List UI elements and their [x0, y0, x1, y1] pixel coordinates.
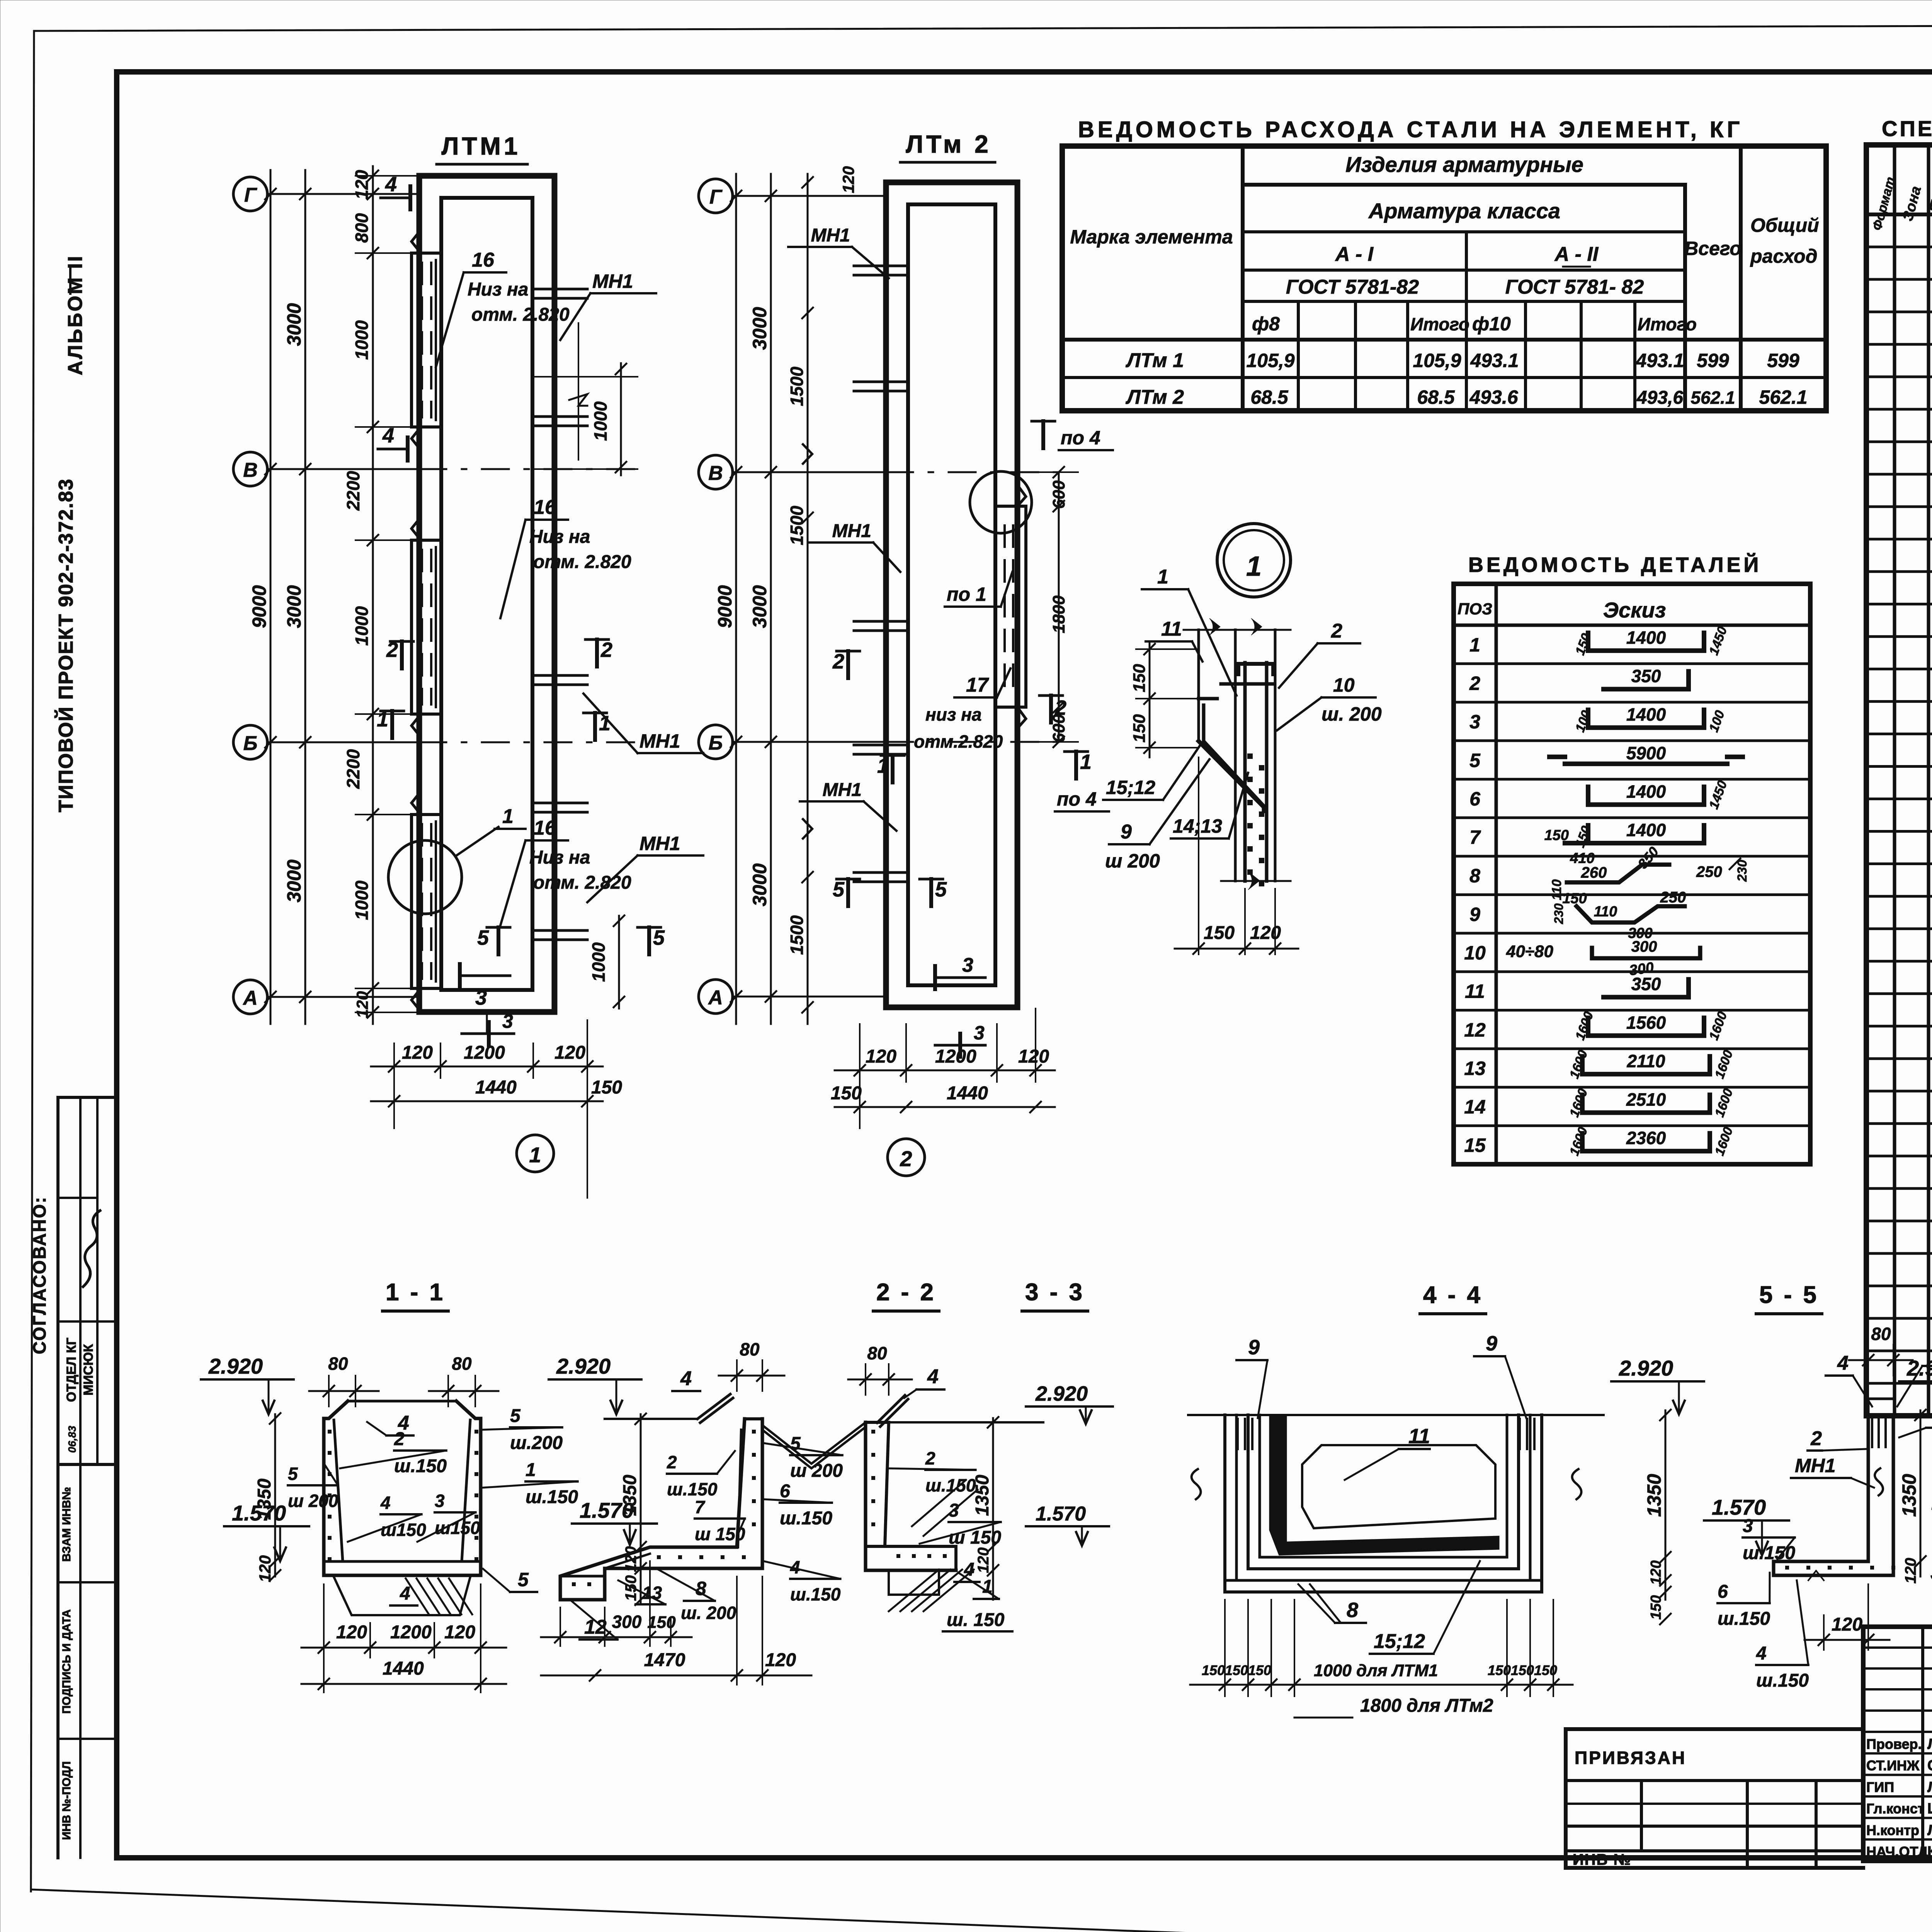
svg-text:4: 4: [382, 424, 394, 447]
svg-text:Г: Г: [709, 186, 723, 208]
svg-text:80: 80: [1871, 1324, 1891, 1344]
svg-text:1: 1: [1246, 551, 1262, 582]
svg-text:562.1: 562.1: [1690, 388, 1735, 408]
svg-text:2: 2: [832, 650, 844, 673]
svg-text:9000: 9000: [248, 585, 270, 628]
svg-text:МН1: МН1: [1795, 1455, 1836, 1476]
svg-text:2: 2: [925, 1448, 935, 1468]
svg-text:120: 120: [1832, 1614, 1862, 1635]
svg-text:отм. 2.820: отм. 2.820: [533, 552, 631, 572]
svg-text:ТИПОВОЙ ПРОЕКТ 902-2-372.83: ТИПОВОЙ ПРОЕКТ 902-2-372.83: [54, 478, 77, 813]
svg-text:Общий: Общий: [1750, 214, 1819, 236]
svg-text:6: 6: [780, 1481, 790, 1502]
svg-text:отм.2.820: отм.2.820: [914, 731, 1003, 752]
svg-text:А - II: А - II: [1554, 243, 1599, 265]
svg-text:120: 120: [402, 1043, 433, 1063]
svg-text:13: 13: [642, 1583, 662, 1603]
svg-text:1400: 1400: [1626, 704, 1666, 724]
svg-text:5: 5: [1469, 750, 1481, 771]
svg-text:600: 600: [1049, 480, 1068, 509]
svg-text:5: 5: [653, 926, 665, 949]
svg-text:493.1: 493.1: [1470, 350, 1519, 371]
svg-text:5: 5: [477, 926, 489, 949]
svg-text:Б: Б: [243, 732, 258, 755]
svg-text:15;12: 15;12: [1374, 1630, 1425, 1653]
svg-text:1: 1: [599, 712, 611, 735]
svg-text:120: 120: [1018, 1046, 1049, 1067]
svg-text:1: 1: [877, 754, 889, 777]
svg-text:493,6: 493,6: [1636, 388, 1683, 408]
svg-text:230: 230: [1552, 903, 1566, 925]
svg-text:105,9: 105,9: [1413, 350, 1461, 371]
svg-text:3000: 3000: [749, 585, 770, 628]
svg-text:1350: 1350: [1898, 1474, 1920, 1517]
svg-text:Б: Б: [709, 732, 723, 754]
svg-text:68.5: 68.5: [1417, 386, 1455, 408]
svg-text:1350: 1350: [972, 1475, 993, 1516]
svg-text:300: 300: [612, 1612, 642, 1632]
svg-text:599: 599: [1767, 350, 1799, 371]
svg-text:2 - 2: 2 - 2: [876, 1279, 936, 1306]
svg-text:ШАПИРО: ШАПИРО: [1927, 1801, 1932, 1817]
svg-text:2: 2: [667, 1452, 677, 1472]
svg-text:ш.150: ш.150: [790, 1584, 841, 1604]
svg-text:1400: 1400: [1626, 628, 1666, 648]
svg-text:5: 5: [288, 1464, 298, 1484]
svg-text:Эскиз: Эскиз: [1603, 598, 1666, 622]
svg-text:2360: 2360: [1626, 1128, 1666, 1148]
svg-text:низ на: низ на: [925, 704, 982, 724]
svg-text:1350: 1350: [620, 1475, 640, 1516]
svg-text:ИНВ №-ПОДЛ: ИНВ №-ПОДЛ: [60, 1761, 73, 1840]
svg-text:120: 120: [353, 991, 371, 1018]
svg-text:150: 150: [1534, 1662, 1557, 1678]
svg-text:Низ на: Низ на: [529, 527, 590, 547]
svg-text:ш.150: ш.150: [394, 1456, 447, 1476]
svg-text:ш 200: ш 200: [288, 1491, 338, 1511]
svg-text:16: 16: [534, 496, 556, 519]
svg-text:4 - 4: 4 - 4: [1423, 1282, 1483, 1308]
svg-text:Копировал: Коршунова: Копировал: Коршунова: [1922, 1930, 1932, 1932]
svg-text:Марка элемента: Марка элемента: [1070, 226, 1233, 248]
svg-text:68.5: 68.5: [1250, 386, 1289, 408]
svg-text:1350: 1350: [254, 1478, 275, 1520]
svg-text:ш 200: ш 200: [1105, 850, 1160, 872]
svg-text:150: 150: [1225, 1662, 1248, 1678]
svg-text:150: 150: [1488, 1662, 1511, 1678]
svg-text:11: 11: [1161, 618, 1182, 640]
svg-text:2.920: 2.920: [556, 1354, 611, 1378]
svg-text:СПЕЦИФИКАЦИЯ ЭЛЕМЕНТОВ МОНОЛИТ: СПЕЦИФИКАЦИЯ ЭЛЕМЕНТОВ МОНОЛИТНОЙ КОНСТР…: [1882, 116, 1932, 141]
svg-text:2: 2: [1810, 1427, 1822, 1450]
svg-text:ЛТм 1: ЛТм 1: [1125, 349, 1184, 372]
svg-text:ЛТм 2: ЛТм 2: [906, 130, 991, 158]
svg-text:14;13: 14;13: [1173, 815, 1222, 837]
svg-text:ГОСТ 5781-82: ГОСТ 5781-82: [1286, 276, 1419, 298]
svg-text:В: В: [243, 459, 258, 481]
svg-text:ш. 200: ш. 200: [1321, 703, 1382, 725]
svg-text:260: 260: [1581, 864, 1607, 881]
svg-text:1200: 1200: [935, 1046, 976, 1067]
svg-text:1470: 1470: [644, 1650, 685, 1670]
svg-text:250: 250: [1696, 864, 1722, 881]
svg-text:ИНВ №: ИНВ №: [1573, 1851, 1631, 1868]
svg-text:1000: 1000: [352, 320, 372, 360]
svg-text:Провер.: Провер.: [1866, 1736, 1922, 1752]
svg-text:ОТДЕЛ КГ: ОТДЕЛ КГ: [64, 1338, 79, 1402]
svg-text:80: 80: [452, 1354, 472, 1374]
svg-text:7: 7: [1469, 827, 1481, 848]
svg-text:5: 5: [833, 878, 845, 901]
svg-text:8: 8: [1347, 1599, 1358, 1622]
svg-text:150: 150: [1204, 923, 1235, 943]
svg-text:1000: 1000: [588, 942, 609, 982]
svg-text:ш.200: ш.200: [510, 1433, 563, 1453]
svg-text:150: 150: [1130, 664, 1149, 692]
svg-text:15;12: 15;12: [1106, 777, 1155, 798]
svg-text:120: 120: [1250, 923, 1281, 943]
svg-text:по 4: по 4: [1057, 788, 1097, 810]
svg-text:отм. 2.820: отм. 2.820: [471, 304, 570, 325]
svg-text:120: 120: [1902, 1558, 1919, 1584]
svg-text:9: 9: [1486, 1332, 1497, 1355]
svg-text:ЛТм 2: ЛТм 2: [1125, 386, 1184, 408]
svg-text:16: 16: [534, 817, 556, 839]
svg-text:4: 4: [400, 1583, 410, 1604]
svg-text:МН1: МН1: [823, 780, 862, 800]
svg-text:800: 800: [352, 213, 372, 243]
svg-text:9000: 9000: [714, 585, 736, 628]
svg-text:230: 230: [1735, 860, 1750, 882]
svg-text:МН1: МН1: [592, 270, 633, 292]
svg-text:1: 1: [529, 1143, 541, 1167]
svg-text:1.570: 1.570: [1712, 1495, 1766, 1519]
svg-text:1: 1: [1157, 566, 1168, 588]
svg-text:3000: 3000: [749, 307, 770, 350]
svg-text:80: 80: [740, 1339, 760, 1359]
svg-text:ш.150: ш.150: [1756, 1670, 1809, 1691]
svg-text:599: 599: [1697, 350, 1729, 371]
svg-text:5: 5: [518, 1569, 529, 1590]
svg-text:1000: 1000: [352, 880, 372, 920]
svg-text:СТ.ИНЖ: СТ.ИНЖ: [1866, 1758, 1920, 1774]
svg-text:ПОЗ: ПОЗ: [1458, 600, 1492, 618]
svg-text:АЛЬБОМ II: АЛЬБОМ II: [64, 255, 87, 376]
svg-text:9: 9: [1469, 903, 1480, 925]
svg-text:110: 110: [1549, 879, 1564, 900]
svg-text:17: 17: [966, 674, 989, 696]
svg-text:2510: 2510: [1626, 1090, 1666, 1110]
svg-text:7: 7: [695, 1497, 706, 1517]
svg-text:493.1: 493.1: [1635, 350, 1684, 371]
svg-text:11: 11: [1408, 1425, 1430, 1448]
svg-text:ПРИВЯЗАН: ПРИВЯЗАН: [1575, 1748, 1686, 1768]
svg-text:120: 120: [765, 1650, 796, 1670]
svg-text:562.1: 562.1: [1759, 386, 1807, 408]
svg-text:1400: 1400: [1626, 781, 1666, 801]
svg-text:СОГЛАСОВАНО:: СОГЛАСОВАНО:: [29, 1196, 49, 1354]
svg-text:1500: 1500: [787, 505, 807, 545]
svg-text:80: 80: [328, 1354, 348, 1374]
svg-text:МН1: МН1: [639, 833, 680, 854]
svg-text:1440: 1440: [947, 1083, 988, 1104]
svg-text:1350: 1350: [1643, 1474, 1665, 1517]
svg-text:3: 3: [974, 1022, 985, 1044]
svg-text:410: 410: [1570, 850, 1594, 867]
svg-text:СТРОНГИН: СТРОНГИН: [1927, 1758, 1932, 1774]
svg-text:120: 120: [1648, 1560, 1664, 1585]
svg-text:Гл.конст: Гл.конст: [1866, 1801, 1924, 1816]
svg-text:МН1: МН1: [811, 225, 850, 246]
svg-text:ш.150: ш.150: [1718, 1609, 1770, 1629]
svg-text:1 - 1: 1 - 1: [386, 1279, 445, 1306]
svg-text:2.920: 2.920: [1035, 1382, 1088, 1405]
svg-text:3000: 3000: [283, 859, 305, 902]
svg-text:Лоуцкер: Лоуцкер: [1927, 1822, 1932, 1838]
svg-text:МН1: МН1: [832, 521, 871, 541]
svg-text:3: 3: [1743, 1516, 1753, 1536]
svg-text:40÷80: 40÷80: [1506, 942, 1554, 961]
svg-text:150: 150: [1248, 1662, 1271, 1678]
svg-text:80: 80: [867, 1343, 887, 1363]
svg-text:1440: 1440: [475, 1077, 517, 1098]
svg-text:ВЕДОМОСТЬ РАСХОДА СТАЛИ НА ЭЛЕ: ВЕДОМОСТЬ РАСХОДА СТАЛИ НА ЭЛЕМЕНТ, КГ: [1078, 117, 1743, 142]
svg-text:2: 2: [1054, 696, 1066, 719]
svg-text:1: 1: [1469, 634, 1480, 656]
svg-text:8: 8: [1469, 865, 1480, 887]
svg-text:Г: Г: [244, 184, 257, 206]
svg-text:Низ на: Низ на: [529, 847, 590, 868]
svg-text:2200: 2200: [343, 471, 363, 511]
svg-text:2: 2: [900, 1146, 912, 1171]
svg-text:2: 2: [1469, 672, 1480, 694]
svg-text:В: В: [708, 462, 723, 485]
svg-text:120: 120: [839, 166, 857, 193]
svg-text:3: 3: [502, 1010, 513, 1032]
svg-text:ВЗАМ ИНВ№: ВЗАМ ИНВ№: [60, 1487, 73, 1561]
svg-text:1.570: 1.570: [1036, 1503, 1086, 1525]
svg-text:350: 350: [1631, 974, 1661, 994]
svg-text:ш150: ш150: [381, 1520, 426, 1540]
svg-text:Всего: Всего: [1684, 238, 1742, 259]
svg-text:120: 120: [336, 1622, 367, 1643]
svg-text:150: 150: [647, 1613, 676, 1632]
svg-text:2.920: 2.920: [1619, 1356, 1673, 1380]
svg-text:4: 4: [380, 1493, 391, 1513]
svg-text:150: 150: [591, 1077, 622, 1098]
svg-text:Лоуцкер: Лоуцкер: [1927, 1736, 1932, 1752]
svg-text:1200: 1200: [464, 1043, 505, 1063]
svg-text:ГОСТ 5781- 82: ГОСТ 5781- 82: [1505, 276, 1644, 298]
svg-text:9: 9: [1121, 821, 1132, 843]
svg-text:1500: 1500: [787, 915, 807, 955]
svg-text:5900: 5900: [1626, 743, 1666, 763]
svg-text:14: 14: [1464, 1096, 1486, 1118]
svg-text:12: 12: [1464, 1019, 1486, 1041]
svg-text:1: 1: [526, 1460, 536, 1480]
svg-text:4: 4: [385, 173, 397, 196]
svg-text:120: 120: [352, 170, 372, 199]
svg-text:А: А: [242, 987, 258, 1009]
svg-text:250: 250: [1660, 889, 1686, 906]
svg-text:ш.150: ш.150: [667, 1479, 718, 1499]
svg-text:Итого: Итого: [1410, 314, 1469, 334]
svg-text:1: 1: [502, 805, 514, 828]
svg-text:1200: 1200: [390, 1622, 432, 1643]
svg-text:350: 350: [1631, 666, 1661, 686]
svg-text:13: 13: [1464, 1058, 1486, 1079]
svg-text:3. Поз. 4 и 5 стыковать вразб: 3. Поз. 4 и 5 стыковать вразбежку с пере…: [1930, 1556, 1932, 1587]
svg-text:1400: 1400: [1626, 820, 1666, 840]
svg-text:ПОДПИСЬ И ДАТА: ПОДПИСЬ И ДАТА: [60, 1609, 73, 1714]
svg-text:3: 3: [475, 986, 487, 1009]
svg-text:150: 150: [1648, 1595, 1664, 1619]
svg-text:МН1: МН1: [639, 730, 680, 752]
svg-text:3: 3: [1469, 711, 1480, 733]
svg-text:А: А: [707, 986, 723, 1009]
svg-text:ш.150: ш.150: [780, 1508, 832, 1529]
svg-text:105,9: 105,9: [1246, 350, 1294, 371]
svg-text:2: 2: [1331, 620, 1342, 642]
svg-text:4: 4: [927, 1366, 939, 1388]
svg-text:3: 3: [435, 1491, 445, 1511]
svg-text:НАЧ.ОТД: НАЧ.ОТД: [1866, 1844, 1928, 1860]
svg-text:1800 для ЛТм2: 1800 для ЛТм2: [1360, 1696, 1493, 1716]
svg-text:1440: 1440: [383, 1658, 424, 1679]
svg-text:расход: расход: [1750, 245, 1818, 267]
svg-text:2.920: 2.920: [208, 1354, 263, 1378]
svg-text:1000: 1000: [352, 606, 372, 646]
svg-text:МИСЮК: МИСЮК: [81, 1344, 96, 1395]
svg-text:по 1: по 1: [947, 583, 986, 605]
svg-text:9: 9: [1248, 1336, 1260, 1359]
svg-text:ш. 200: ш. 200: [681, 1603, 736, 1623]
svg-text:ЛТМ1: ЛТМ1: [442, 132, 521, 160]
svg-text:1: 1: [1080, 750, 1092, 774]
svg-text:1500: 1500: [787, 366, 807, 406]
svg-text:ш.150: ш.150: [925, 1475, 976, 1495]
svg-text:150: 150: [1202, 1662, 1225, 1678]
svg-text:120: 120: [444, 1622, 475, 1643]
svg-text:4: 4: [1837, 1352, 1849, 1374]
svg-text:ш. 150: ш. 150: [947, 1610, 1005, 1630]
svg-text:Изделия арматурные: Изделия арматурные: [1345, 152, 1583, 177]
svg-text:2200: 2200: [343, 749, 363, 789]
svg-text:6: 6: [1469, 788, 1481, 810]
svg-text:Итого: Итого: [1638, 314, 1697, 334]
svg-text:6: 6: [1718, 1582, 1728, 1602]
svg-text:150: 150: [622, 1575, 639, 1601]
svg-text:А - I: А - I: [1335, 243, 1374, 265]
svg-text:10: 10: [1333, 674, 1355, 696]
svg-text:16: 16: [472, 249, 495, 271]
svg-text:150: 150: [1511, 1662, 1534, 1678]
svg-text:120: 120: [622, 1546, 639, 1572]
svg-text:ГИП: ГИП: [1866, 1779, 1894, 1795]
svg-text:КРАСАВИН: КРАСАВИН: [1927, 1844, 1932, 1860]
svg-text:120: 120: [554, 1043, 585, 1063]
svg-text:ВЕДОМОСТЬ ДЕТАЛЕЙ: ВЕДОМОСТЬ ДЕТАЛЕЙ: [1468, 553, 1762, 577]
svg-text:110: 110: [1594, 903, 1617, 920]
svg-text:5: 5: [790, 1434, 801, 1454]
svg-text:Низ на: Низ на: [468, 279, 529, 300]
svg-text:493.6: 493.6: [1469, 386, 1518, 408]
svg-text:3: 3: [962, 954, 973, 976]
svg-text:3: 3: [949, 1500, 959, 1521]
svg-text:5: 5: [510, 1406, 521, 1426]
svg-text:120: 120: [866, 1046, 896, 1067]
svg-text:120: 120: [975, 1548, 992, 1573]
svg-text:Арматура класса: Арматура класса: [1368, 199, 1560, 223]
svg-text:150: 150: [1130, 714, 1149, 743]
svg-text:1000 для ЛТМ1: 1000 для ЛТМ1: [1314, 1661, 1438, 1680]
svg-text:Лоуцкер: Лоуцкер: [1927, 1779, 1932, 1795]
svg-text:1000: 1000: [590, 401, 611, 441]
svg-text:5: 5: [935, 878, 947, 901]
svg-text:2110: 2110: [1627, 1051, 1665, 1071]
svg-text:2: 2: [394, 1429, 405, 1449]
svg-text:4: 4: [680, 1367, 692, 1390]
svg-text:06,83: 06,83: [66, 1426, 78, 1453]
svg-text:10: 10: [1464, 942, 1486, 964]
svg-text:1560: 1560: [1626, 1012, 1666, 1032]
svg-text:ф8: ф8: [1252, 313, 1280, 335]
svg-text:4: 4: [1756, 1643, 1767, 1664]
svg-text:11: 11: [1465, 981, 1485, 1002]
svg-text:по 4: по 4: [1061, 427, 1100, 449]
svg-text:15: 15: [1464, 1134, 1486, 1156]
svg-text:5 - 5: 5 - 5: [1759, 1282, 1819, 1308]
svg-text:ш.150: ш.150: [526, 1487, 578, 1507]
svg-text:3000: 3000: [283, 585, 305, 628]
svg-text:3 - 3: 3 - 3: [1025, 1279, 1085, 1306]
svg-text:2: 2: [600, 638, 612, 662]
svg-text:150: 150: [1544, 827, 1569, 844]
svg-text:150: 150: [1562, 890, 1587, 906]
svg-text:Н.контр: Н.контр: [1866, 1822, 1919, 1838]
svg-text:ф10: ф10: [1472, 313, 1511, 335]
svg-text:3000: 3000: [283, 303, 305, 346]
svg-text:300: 300: [1631, 938, 1657, 955]
svg-text:3000: 3000: [749, 863, 770, 906]
svg-text:1800: 1800: [1049, 595, 1068, 633]
svg-text:150: 150: [831, 1083, 862, 1104]
svg-text:ш 200: ш 200: [790, 1461, 843, 1481]
